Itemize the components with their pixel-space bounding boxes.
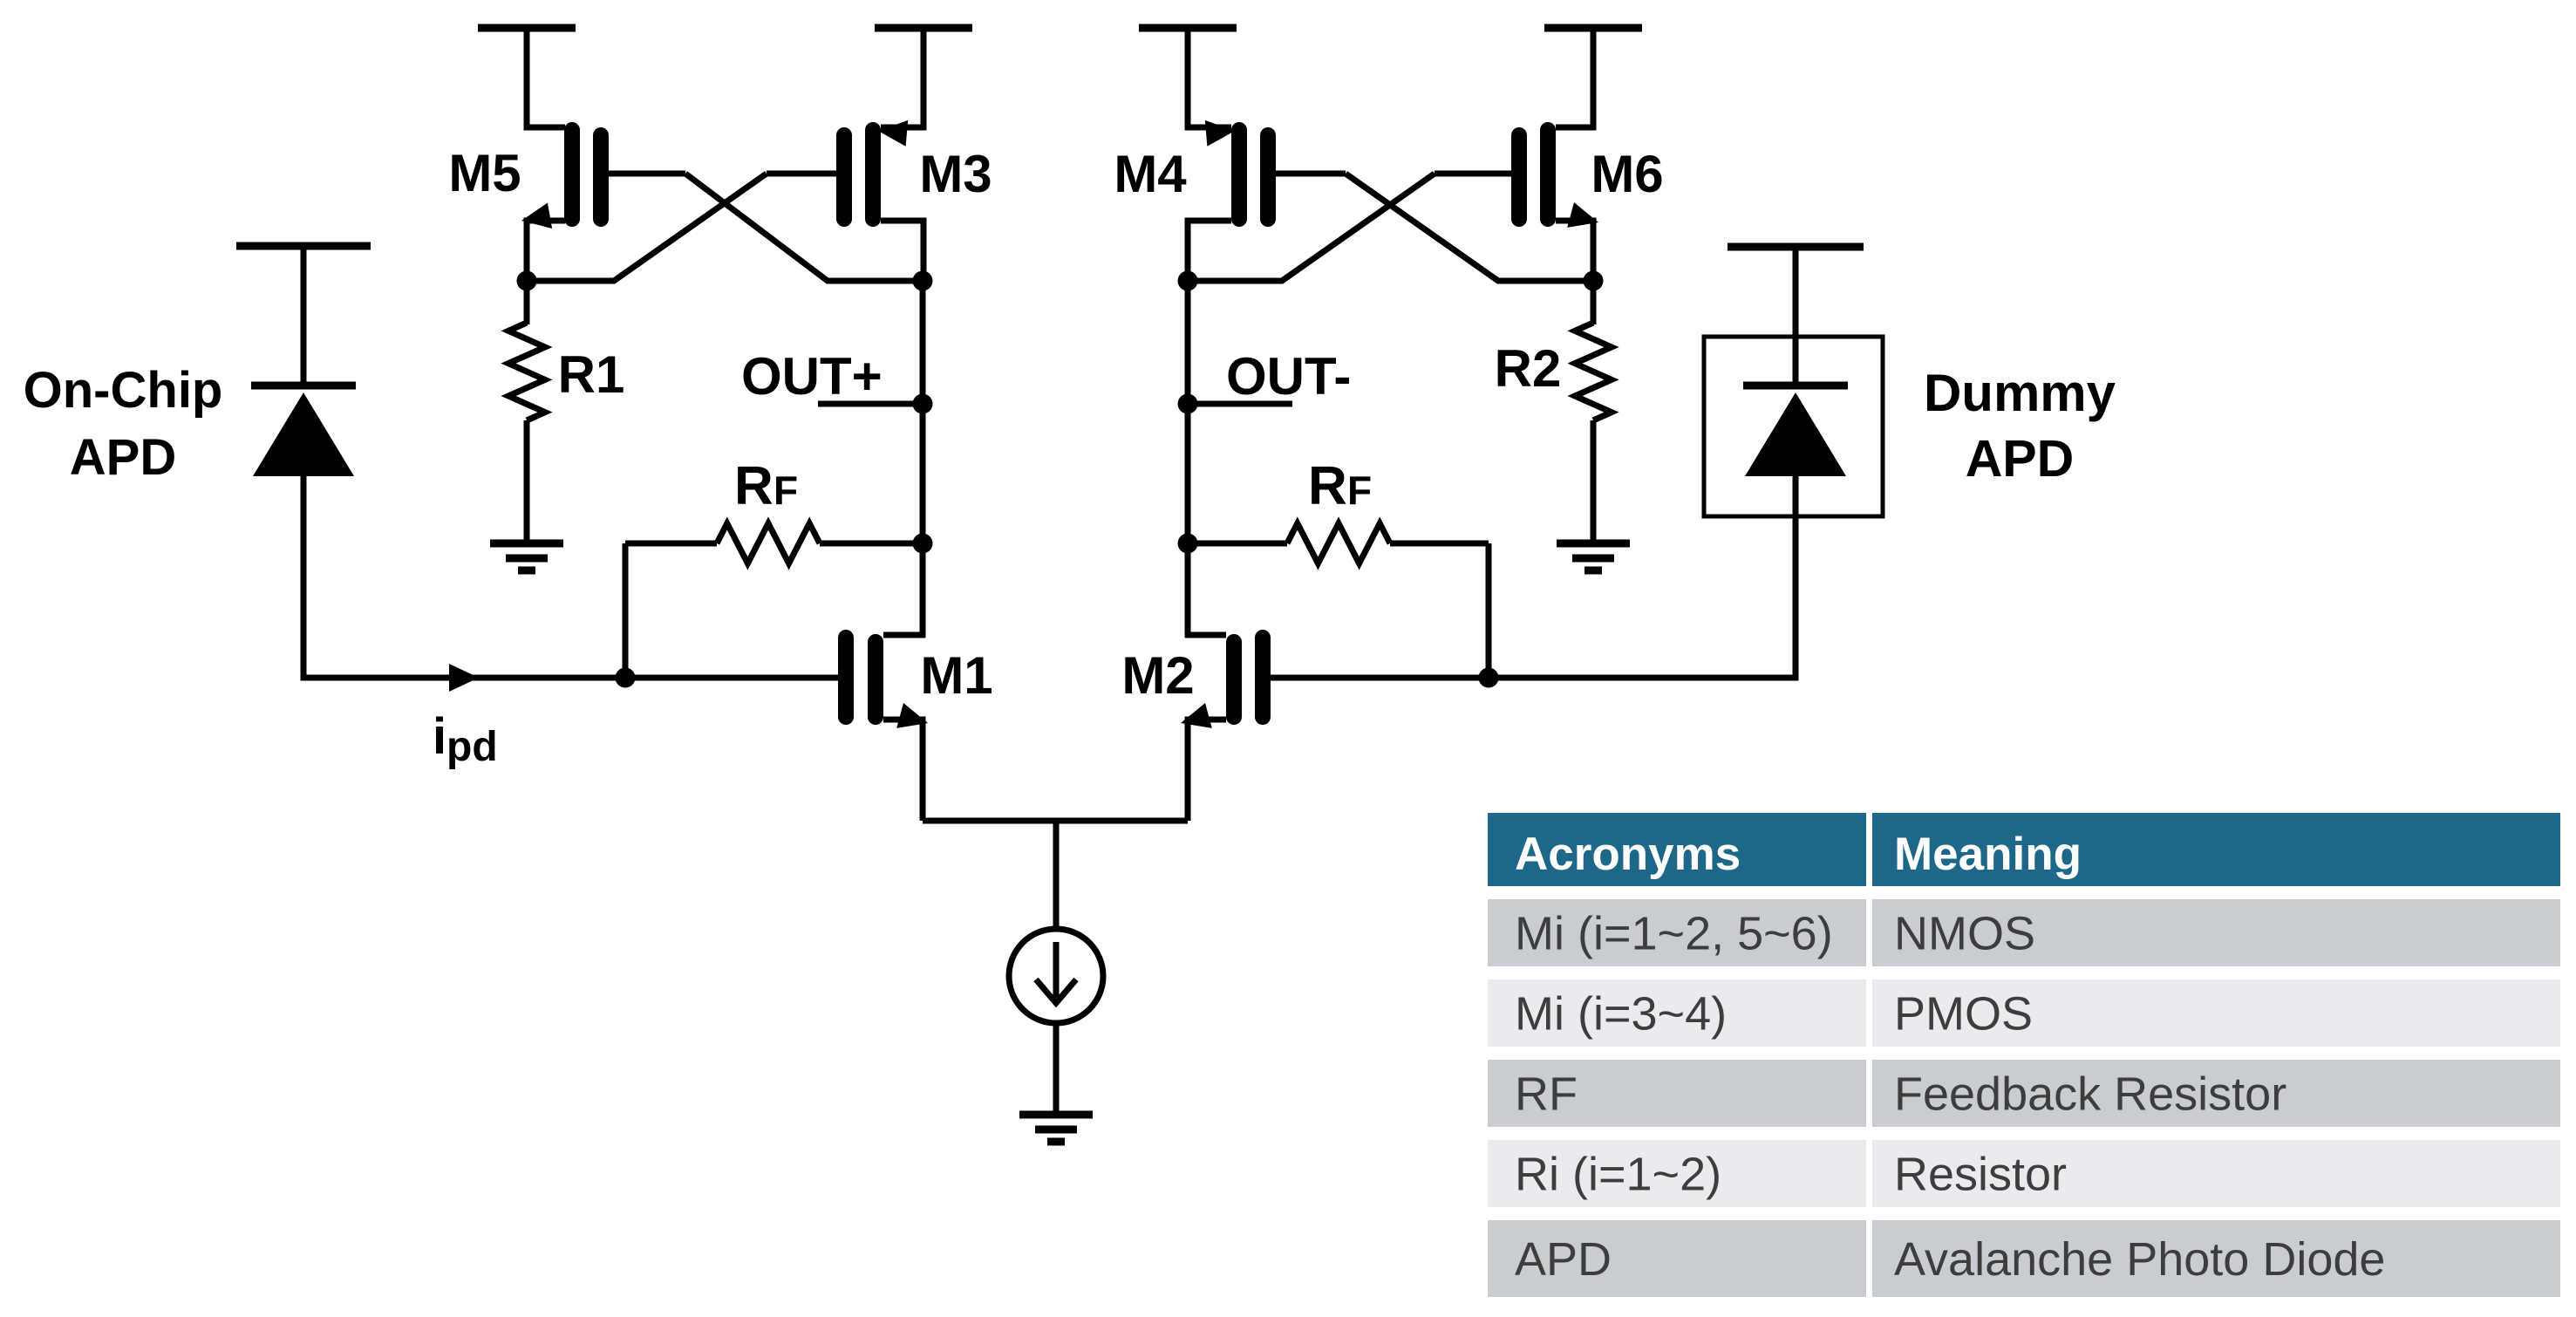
wire M5 gate lead xyxy=(609,171,685,177)
transistor M2 (NMOS) body xyxy=(1234,638,1263,717)
svg-text:M1: M1 xyxy=(920,646,992,705)
label On-Chip APD xyxy=(24,362,223,486)
wire R2 to ground xyxy=(1591,420,1597,544)
wire node D to R2 xyxy=(1591,281,1597,324)
svg-text:APD: APD xyxy=(1966,430,2075,488)
wire Dummy APD anode to M2 gate xyxy=(1271,476,1796,678)
label Dummy APD xyxy=(1924,364,2116,488)
svg-text:NMOS: NMOS xyxy=(1894,908,2035,960)
wire APD anode to M1 gate xyxy=(303,476,838,678)
table cell Mi PMOS row xyxy=(1515,988,1727,1041)
wire RF- left lead xyxy=(1188,541,1287,547)
M3 source arrow xyxy=(878,120,908,147)
wire RF+ right lead xyxy=(820,541,923,547)
table cell APD row xyxy=(1515,1233,1612,1286)
wire node A to R1 xyxy=(524,281,530,324)
M2 source arrow xyxy=(1181,703,1212,728)
wire current source to ground xyxy=(1053,1024,1060,1116)
resistor R1 xyxy=(508,323,545,420)
svg-text:M6: M6 xyxy=(1591,145,1663,203)
node B junction (M3 drain / OUT+) xyxy=(913,271,933,291)
table header Acronyms xyxy=(1515,829,1741,880)
M6 source arrow xyxy=(1567,202,1598,228)
label R1 xyxy=(558,345,625,404)
resistor RF (right) xyxy=(1287,523,1390,563)
wire M1 drain lead xyxy=(883,632,925,638)
node D junction (M6 drain / R2) xyxy=(1584,271,1604,291)
wire M6 gate lead xyxy=(1435,171,1511,177)
svg-text:OUT+: OUT+ xyxy=(741,347,883,406)
label M2 xyxy=(1121,646,1194,705)
wire RF+ down to input node xyxy=(623,543,629,678)
wire M4 gate to node D (diagonal) xyxy=(1346,174,1590,281)
wire M1 source lead xyxy=(883,720,923,821)
node RF- junction xyxy=(1178,534,1198,554)
wire M3 gate lead xyxy=(767,171,836,177)
label M6 xyxy=(1591,145,1663,203)
wire M2 source lead xyxy=(1188,720,1226,821)
wire M3 gate to node A (diagonal) xyxy=(530,174,767,281)
wire RF node to M2 drain xyxy=(1185,543,1191,638)
supply rail (Dummy APD cathode) xyxy=(1728,243,1864,251)
wire OUT+ node to RF node xyxy=(920,404,926,543)
svg-text:Acronyms: Acronyms xyxy=(1515,829,1741,880)
table cell RF row xyxy=(1515,1068,1578,1121)
wire RF node to M1 drain xyxy=(920,543,926,638)
svg-text:Feedback Resistor: Feedback Resistor xyxy=(1894,1068,2286,1121)
current arrow ipd xyxy=(449,664,479,692)
On-Chip APD cathode bar xyxy=(251,382,356,390)
svg-text:R2: R2 xyxy=(1495,339,1562,398)
Dummy APD box xyxy=(1704,337,1883,516)
wire tail (M1/M2 sources join) xyxy=(923,818,1188,824)
node OUT+ junction xyxy=(913,394,933,414)
wire M3 source to supply xyxy=(881,24,923,127)
current source I1 xyxy=(1009,929,1103,1023)
wire M5 gate to node B (diagonal) xyxy=(685,174,918,281)
supply rail (M6 drain) xyxy=(1544,24,1642,32)
wire M5 drain to supply xyxy=(527,24,565,127)
node C junction (M4 drain / OUT-) xyxy=(1178,271,1198,291)
wire RF+ left lead xyxy=(625,541,717,547)
svg-text:Ri (i=1~2): Ri (i=1~2) xyxy=(1515,1149,1721,1201)
svg-text:Dummy: Dummy xyxy=(1924,364,2116,422)
supply rail (M3 source) xyxy=(875,24,972,32)
M4 source arrow xyxy=(1205,120,1235,147)
label M5 xyxy=(448,144,521,202)
table cell Mi NMOS row xyxy=(1894,908,2035,960)
resistor R2 xyxy=(1575,323,1612,420)
svg-text:pd: pd xyxy=(446,724,498,770)
wire OUT+ stub xyxy=(818,401,923,407)
label RF (right) xyxy=(1308,456,1372,516)
wire M3 drain lead xyxy=(881,221,923,281)
svg-text:M5: M5 xyxy=(448,144,521,202)
supply rail (M5 drain) xyxy=(478,24,576,32)
table header Meaning xyxy=(1894,829,2082,880)
svg-text:Mi (i=1~2, 5~6): Mi (i=1~2, 5~6) xyxy=(1515,908,1833,960)
label RF (left) xyxy=(734,456,798,516)
wire RF- right lead xyxy=(1390,541,1489,547)
svg-text:R1: R1 xyxy=(558,345,625,404)
svg-text:M2: M2 xyxy=(1121,646,1194,705)
Dummy APD diode xyxy=(1745,392,1846,476)
wire M2 drain lead xyxy=(1185,632,1226,638)
label M3 xyxy=(919,145,992,203)
transistor M5 (NMOS) body xyxy=(572,130,601,219)
table cell Mi NMOS row xyxy=(1515,908,1833,960)
svg-text:OUT-: OUT- xyxy=(1226,347,1351,406)
svg-text:M3: M3 xyxy=(919,145,992,203)
wire M4 source to supply xyxy=(1188,24,1231,127)
table cell Ri row xyxy=(1894,1149,2067,1201)
svg-text:i: i xyxy=(433,708,446,765)
wire M6 gate to node C (diagonal) xyxy=(1191,174,1435,281)
wire M4 gate lead xyxy=(1276,171,1346,177)
wire APD cathode xyxy=(301,246,307,386)
ground (below current source) xyxy=(1019,1115,1093,1142)
svg-text:PMOS: PMOS xyxy=(1894,988,2033,1041)
label R2 xyxy=(1495,339,1562,398)
wire R1 to ground xyxy=(524,420,530,544)
ground (below R2) xyxy=(1557,543,1630,570)
wire RF- down to M2 gate wire xyxy=(1486,543,1492,678)
label OUT+ xyxy=(741,347,883,406)
transistor M1 (NMOS) body xyxy=(846,638,876,717)
transistor M4 (PMOS) body xyxy=(1239,130,1268,219)
transistor M3 (PMOS) body xyxy=(844,130,873,219)
svg-text:F: F xyxy=(1347,467,1372,513)
resistor RF (left) xyxy=(717,523,820,563)
wire M4 drain lead xyxy=(1188,221,1231,281)
transistor M6 (NMOS) body xyxy=(1519,130,1548,219)
svg-text:F: F xyxy=(773,467,798,513)
svg-text:Meaning: Meaning xyxy=(1894,829,2082,880)
table cell RF row xyxy=(1894,1068,2286,1121)
node RF+ junction xyxy=(913,534,933,554)
supply rail (M4 source) xyxy=(1139,24,1237,32)
ground (below R1) xyxy=(490,543,563,570)
wire M6 source lead xyxy=(1556,221,1593,281)
node input junction (RF tap) xyxy=(616,668,636,688)
svg-text:Mi (i=3~4): Mi (i=3~4) xyxy=(1515,988,1727,1041)
table cell APD row xyxy=(1894,1233,2385,1286)
wire M5 source lead xyxy=(527,221,565,281)
Dummy APD cathode bar xyxy=(1743,382,1848,390)
node A junction (M5 drain / R1) xyxy=(517,271,537,291)
svg-text:RF: RF xyxy=(1515,1068,1578,1121)
label OUT- xyxy=(1226,347,1351,406)
On-Chip APD diode xyxy=(253,392,354,476)
svg-text:Resistor: Resistor xyxy=(1894,1149,2067,1201)
svg-text:On-Chip: On-Chip xyxy=(24,362,223,419)
M1 source arrow xyxy=(896,703,928,728)
table cell Mi PMOS row xyxy=(1894,988,2033,1041)
svg-text:APD: APD xyxy=(1515,1233,1612,1286)
node M2-gate junction (RF tap) xyxy=(1479,668,1499,688)
svg-text:R: R xyxy=(734,456,773,516)
label M1 xyxy=(920,646,992,705)
label ipd xyxy=(433,708,498,770)
label M4 xyxy=(1114,145,1187,203)
node OUT- junction xyxy=(1178,394,1198,414)
wire OUT- node to RF node xyxy=(1185,404,1191,543)
table background (acronyms table) xyxy=(1488,813,2560,1297)
svg-text:APD: APD xyxy=(70,429,176,486)
svg-text:Avalanche Photo Diode: Avalanche Photo Diode xyxy=(1894,1233,2385,1286)
wire M6 drain to supply xyxy=(1556,24,1593,127)
wire node C to OUT- node xyxy=(1185,281,1191,404)
M5 source arrow xyxy=(521,203,552,229)
wire node B to OUT+ node xyxy=(920,281,926,404)
table cell Ri row xyxy=(1515,1149,1721,1201)
svg-text:M4: M4 xyxy=(1114,145,1187,203)
wire tail down to current source xyxy=(1053,821,1060,930)
supply rail (On-Chip APD cathode) xyxy=(236,242,371,250)
wire Dummy APD cathode xyxy=(1793,247,1799,386)
wire OUT- stub xyxy=(1188,401,1292,407)
svg-text:R: R xyxy=(1308,456,1347,516)
